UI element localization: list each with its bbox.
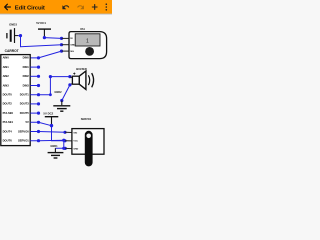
svg-text:DIN0: DIN0 <box>23 56 30 60</box>
motor DC1 body <box>69 32 107 59</box>
node DIN1 <box>37 66 40 69</box>
motor DC1 rotor circle <box>85 47 94 56</box>
wire GND1 junction to servo GND pin <box>64 147 65 149</box>
node DIN3 <box>37 84 40 87</box>
svg-text:DS1: DS1 <box>80 29 85 31</box>
svg-text:PULSE1: PULSE1 <box>3 120 14 124</box>
node IC SERVO1 <box>37 139 40 142</box>
servo body <box>72 129 104 155</box>
IC pin stub DIN1 <box>30 66 38 68</box>
node IC SERVO0 <box>37 130 40 133</box>
node GND2 top <box>60 99 63 102</box>
node DOUT3 <box>37 102 40 105</box>
wire IC DIN0 to motor SIG pin <box>30 51 61 58</box>
servo pin labels <box>73 133 78 151</box>
node 5V DC2 output <box>50 124 53 127</box>
IC pin stub DOUT5 <box>30 112 38 114</box>
buzzer symbol <box>72 71 93 89</box>
wire IC DOUT1 to buzzer plus pin <box>30 77 70 95</box>
undo icon <box>62 5 68 9</box>
motor DC1 pin stubs <box>62 38 70 51</box>
node buzzer plus pin <box>68 75 71 78</box>
node servo VCC pin <box>63 139 66 142</box>
canvas background <box>0 0 112 180</box>
svg-text:Edit Circuit: Edit Circuit <box>15 5 45 11</box>
plus icon <box>92 5 97 10</box>
node wire corner junction <box>49 93 52 96</box>
svg-text:DOUT5: DOUT5 <box>20 111 30 115</box>
svg-text:SERVO1: SERVO1 <box>18 139 29 143</box>
node IC DIN0 <box>37 56 40 59</box>
wire 5V DC1 to motor 5V pin <box>44 37 61 40</box>
svg-text:DIN2: DIN2 <box>23 74 30 78</box>
svg-text:DIN1: DIN1 <box>23 65 30 69</box>
back arrow icon <box>5 4 11 10</box>
wire buzzer minus pin to ground GND2 <box>62 85 70 101</box>
node servo GND pin <box>64 147 67 150</box>
node GND3 wire junction <box>19 34 22 37</box>
wire IC SERVO1 pin to ground GND1 junction <box>30 140 64 148</box>
svg-text:DOUT3: DOUT3 <box>20 102 30 106</box>
node motor SIG pin <box>60 50 63 53</box>
svg-text:AIN3: AIN3 <box>3 83 10 87</box>
svg-text:GND: GND <box>70 45 75 47</box>
svg-text:GND: GND <box>73 148 78 150</box>
svg-text:GND1: GND1 <box>50 144 58 148</box>
power 5V DC1 symbol <box>38 29 51 36</box>
redo icon (disabled) <box>78 5 84 9</box>
node buzzer wire bend <box>49 75 52 78</box>
node DOUT5 <box>37 112 40 115</box>
svg-text:GND2: GND2 <box>54 90 62 94</box>
servo horn hole <box>86 134 91 139</box>
svg-text:SERVO1: SERVO1 <box>81 117 92 121</box>
ground GND1 symbol <box>48 148 64 158</box>
svg-text:VCC: VCC <box>73 141 78 143</box>
IC CARROT right pin labels <box>18 56 29 143</box>
svg-text:DIN3: DIN3 <box>23 83 30 87</box>
wire IC SERVO0 to servo SIG pin <box>30 131 65 134</box>
svg-text:BUZZER: BUZZER <box>76 67 87 71</box>
svg-text:SIG: SIG <box>73 133 77 135</box>
node DIN2 <box>37 75 40 78</box>
app bar <box>0 0 112 14</box>
node buzzer minus pin <box>68 83 71 86</box>
node GND1 junction <box>62 147 65 150</box>
svg-text:PULSE0: PULSE0 <box>3 111 14 115</box>
svg-text:CARROT: CARROT <box>5 49 19 53</box>
node 5V DC1 output <box>43 36 46 39</box>
servo horn <box>85 131 93 167</box>
buzzer pin stubs <box>70 77 73 85</box>
node motor GND pin <box>60 43 63 46</box>
svg-text:DOUT6: DOUT6 <box>3 139 13 143</box>
node motor 5V pin <box>60 37 63 40</box>
motor DC1 display <box>75 34 100 46</box>
svg-text:SIG: SIG <box>70 51 74 53</box>
svg-text:AIN0: AIN0 <box>3 56 10 60</box>
svg-text:GND3: GND3 <box>9 22 17 26</box>
IC CARROT left pin labels <box>3 56 14 143</box>
svg-text:DOUT0: DOUT0 <box>3 93 13 97</box>
overflow menu icon <box>106 3 108 10</box>
IC CARROT body <box>1 55 30 146</box>
node IC 5V pin <box>37 121 40 124</box>
servo pin stubs <box>65 132 72 148</box>
IC pin stub DOUT3 <box>30 103 38 105</box>
node servo SIG pin <box>63 131 66 134</box>
svg-text:1: 1 <box>86 39 89 45</box>
svg-text:AIN2: AIN2 <box>3 74 10 78</box>
svg-text:AIN1: AIN1 <box>3 65 10 69</box>
svg-text:5V DC1: 5V DC1 <box>36 21 46 25</box>
svg-text:5V: 5V <box>26 120 29 124</box>
node IC DOUT1 <box>37 93 40 96</box>
IC pin stub DIN3 <box>30 85 38 87</box>
motor DC1 pin labels <box>70 38 75 53</box>
power 5V DC2 symbol <box>45 117 59 125</box>
svg-text:DOUT1: DOUT1 <box>20 93 30 97</box>
node GND1 wire top junction <box>62 139 65 142</box>
wire GND3 to motor GND pin <box>18 36 62 47</box>
wire IC 5V pin to 5V DC2 <box>30 122 51 125</box>
ground GND3 symbol <box>7 28 18 43</box>
svg-text:DOUT4: DOUT4 <box>3 129 13 133</box>
wire 5V DC2 down to servo VCC pin <box>52 126 66 141</box>
IC pin stub DIN2 <box>30 75 38 77</box>
svg-text:DOUT2: DOUT2 <box>3 102 13 106</box>
svg-text:SERVO0: SERVO0 <box>18 129 29 133</box>
svg-text:5V DC2: 5V DC2 <box>43 112 53 116</box>
ground GND2 symbol <box>53 101 70 112</box>
